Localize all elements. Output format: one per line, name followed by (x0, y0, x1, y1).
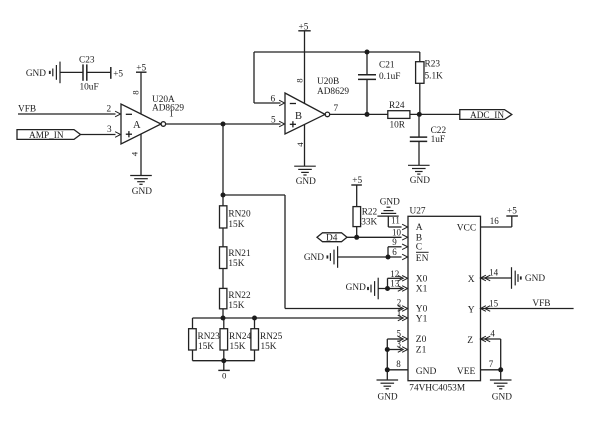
svg-text:3: 3 (397, 339, 402, 349)
svg-text:0.1uF: 0.1uF (379, 72, 400, 82)
svg-text:GND: GND (525, 274, 545, 284)
svg-text:8: 8 (131, 90, 141, 95)
svg-text:X: X (468, 275, 475, 285)
svg-text:D4: D4 (326, 234, 338, 244)
svg-text:15K: 15K (198, 342, 214, 352)
svg-text:GND: GND (26, 69, 46, 79)
svg-text:12: 12 (390, 269, 399, 279)
svg-text:B: B (295, 111, 302, 122)
svg-text:C21: C21 (379, 60, 395, 70)
svg-text:+5: +5 (299, 22, 309, 32)
svg-text:X1: X1 (416, 285, 428, 295)
svg-text:AD8629: AD8629 (152, 103, 184, 113)
svg-text:0: 0 (222, 370, 227, 380)
svg-text:13: 13 (390, 279, 400, 289)
svg-text:GND: GND (346, 283, 366, 293)
svg-text:Z0: Z0 (416, 335, 427, 345)
svg-text:R24: R24 (389, 101, 405, 111)
svg-text:33K: 33K (361, 218, 377, 228)
svg-text:Y: Y (468, 305, 475, 315)
svg-text:15K: 15K (228, 259, 244, 269)
svg-text:GND: GND (416, 367, 437, 377)
svg-text:GND: GND (410, 176, 430, 186)
svg-text:15K: 15K (261, 342, 277, 352)
svg-text:5: 5 (271, 115, 276, 125)
svg-text:C: C (416, 243, 422, 253)
svg-text:GND: GND (378, 392, 398, 402)
svg-text:15: 15 (489, 298, 499, 308)
svg-text:GND: GND (296, 177, 316, 187)
svg-text:R22: R22 (362, 208, 378, 218)
svg-text:2: 2 (107, 105, 112, 115)
svg-text:+5: +5 (507, 206, 517, 216)
svg-text:RN22: RN22 (228, 291, 251, 301)
svg-text:10R: 10R (390, 120, 406, 130)
svg-text:+5: +5 (113, 70, 123, 80)
svg-text:VCC: VCC (457, 223, 477, 233)
svg-text:5: 5 (397, 328, 402, 338)
svg-text:10uF: 10uF (80, 83, 99, 93)
svg-text:74VHC4053M: 74VHC4053M (409, 384, 465, 394)
svg-text:4: 4 (130, 151, 140, 156)
svg-text:15K: 15K (228, 220, 244, 230)
svg-text:7: 7 (334, 104, 339, 114)
svg-text:C23: C23 (79, 56, 95, 66)
svg-text:10: 10 (392, 228, 402, 238)
svg-text:R23: R23 (425, 60, 441, 70)
svg-text:+5: +5 (352, 176, 362, 186)
svg-text:9: 9 (392, 237, 397, 247)
svg-text:GND: GND (492, 392, 512, 402)
svg-text:6: 6 (271, 94, 276, 104)
svg-text:U20B: U20B (317, 77, 339, 87)
svg-text:X0: X0 (416, 275, 428, 285)
svg-text:Y1: Y1 (416, 315, 428, 325)
svg-text:RN23: RN23 (198, 332, 221, 342)
svg-text:8: 8 (295, 78, 305, 83)
svg-text:Z: Z (467, 336, 473, 346)
svg-text:7: 7 (489, 359, 494, 369)
svg-text:4: 4 (295, 142, 305, 147)
svg-text:A: A (416, 223, 423, 233)
svg-text:Y0: Y0 (416, 305, 428, 315)
svg-text:GND: GND (380, 197, 400, 207)
svg-text:2: 2 (397, 297, 402, 307)
svg-text:RN24: RN24 (229, 332, 252, 342)
svg-text:3: 3 (107, 125, 112, 135)
svg-text:15K: 15K (230, 342, 246, 352)
svg-text:1uF: 1uF (431, 135, 445, 145)
svg-text:AMP_IN: AMP_IN (29, 131, 64, 141)
svg-text:VFB: VFB (18, 105, 36, 115)
svg-text:14: 14 (489, 268, 499, 278)
svg-text:Z1: Z1 (416, 346, 427, 356)
svg-text:5.1K: 5.1K (425, 72, 444, 82)
svg-text:16: 16 (490, 216, 500, 226)
svg-text:6: 6 (392, 247, 397, 257)
svg-text:ADC_IN: ADC_IN (470, 111, 504, 121)
svg-text:4: 4 (490, 328, 495, 338)
svg-text:AD8629: AD8629 (317, 87, 349, 97)
svg-text:8: 8 (396, 359, 401, 369)
svg-text:+5: +5 (136, 64, 146, 74)
svg-text:GND: GND (132, 187, 152, 197)
svg-text:RN21: RN21 (228, 249, 251, 259)
svg-text:U27: U27 (410, 207, 426, 217)
svg-text:RN20: RN20 (228, 210, 251, 220)
svg-text:EN: EN (416, 254, 429, 264)
svg-text:VFB: VFB (532, 299, 550, 309)
svg-text:1: 1 (397, 307, 402, 317)
svg-text:A: A (133, 120, 141, 131)
svg-text:11: 11 (391, 216, 400, 226)
svg-text:VEE: VEE (457, 367, 476, 377)
svg-text:15K: 15K (228, 301, 244, 311)
svg-text:RN25: RN25 (260, 332, 283, 342)
svg-text:GND: GND (304, 253, 324, 263)
